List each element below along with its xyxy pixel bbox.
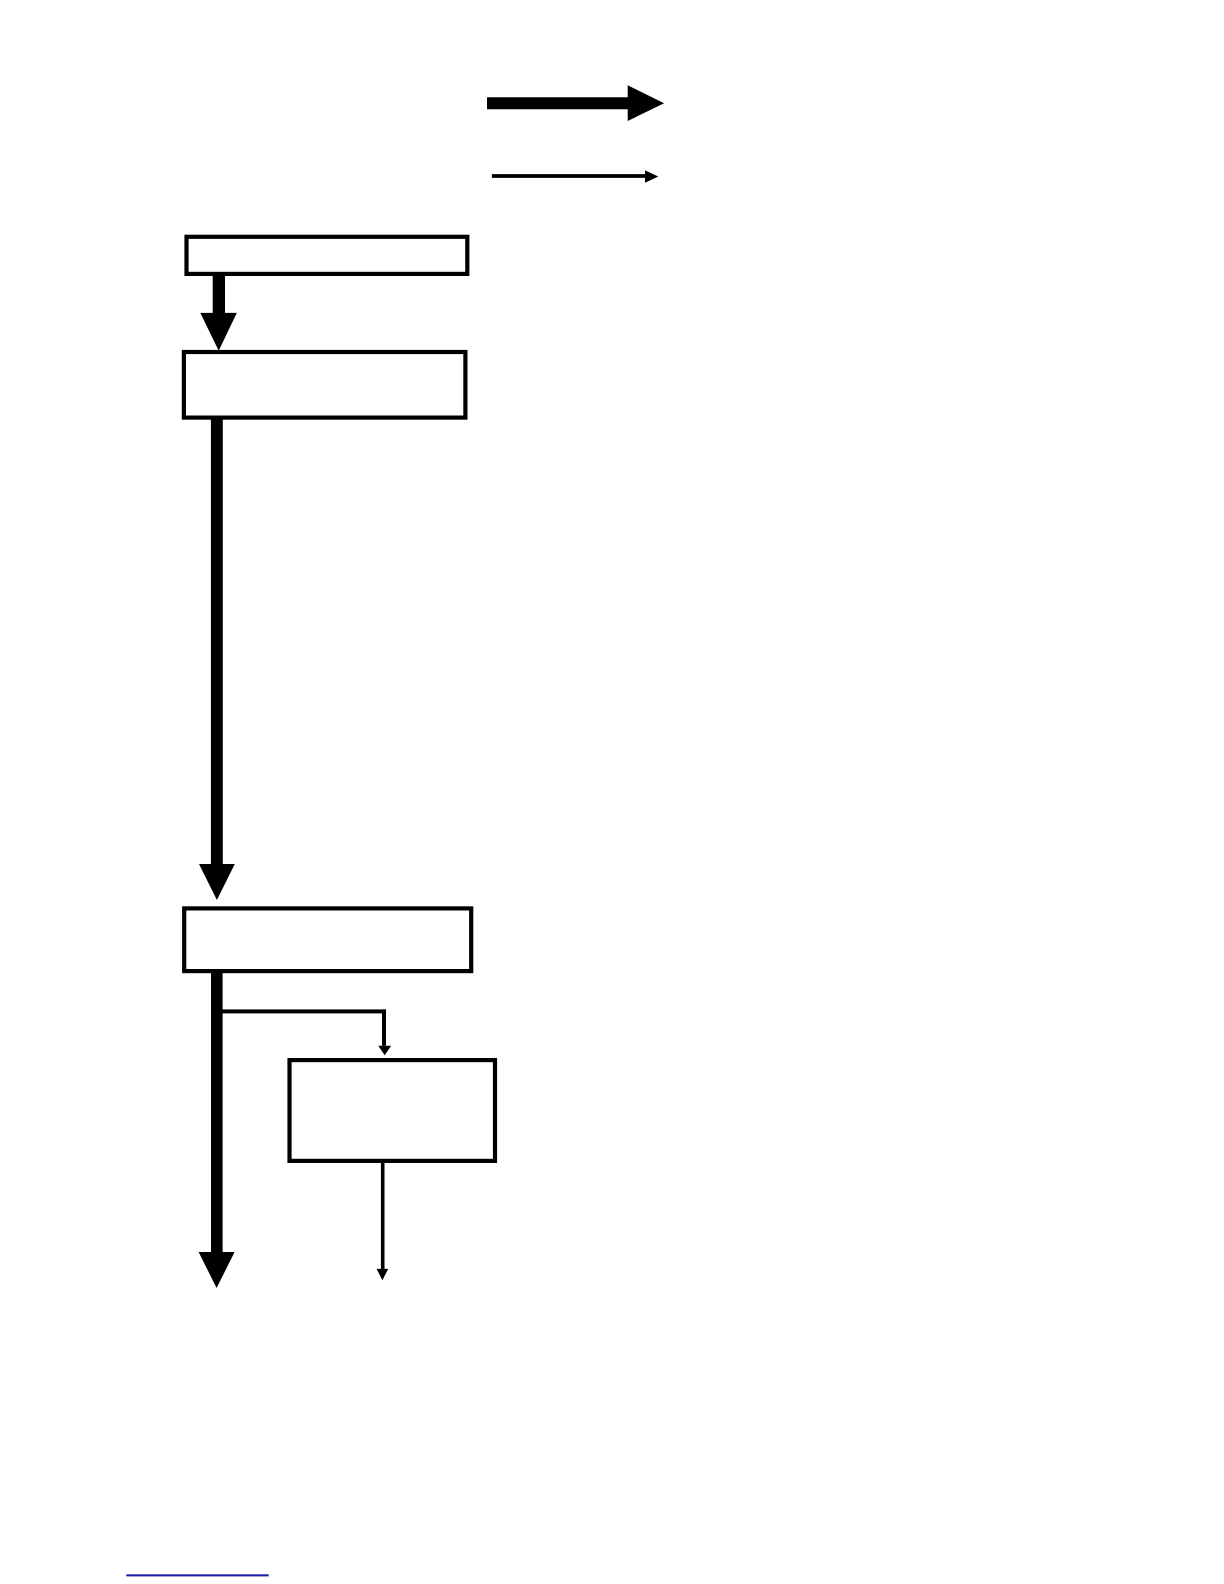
thin branch wire horizontal (214, 1009, 386, 1013)
box 4 (290, 1060, 496, 1161)
blue underline bottom left (126, 1574, 268, 1576)
thick arrow box 1 to box 2 (200, 276, 237, 351)
thin arrow below box 4 (377, 1161, 389, 1280)
thin branch wire vertical (382, 1009, 386, 1045)
thick long arrow box 2 to box 3 (199, 417, 235, 900)
legend thin right arrow (492, 170, 658, 182)
thin branch arrowhead into box 4 (378, 1046, 391, 1056)
box 3 (184, 908, 471, 971)
box 2 (184, 352, 466, 418)
thick arrow box 3 to bottom (199, 971, 235, 1288)
legend thick right arrow (487, 85, 664, 121)
box 1 (187, 237, 468, 274)
